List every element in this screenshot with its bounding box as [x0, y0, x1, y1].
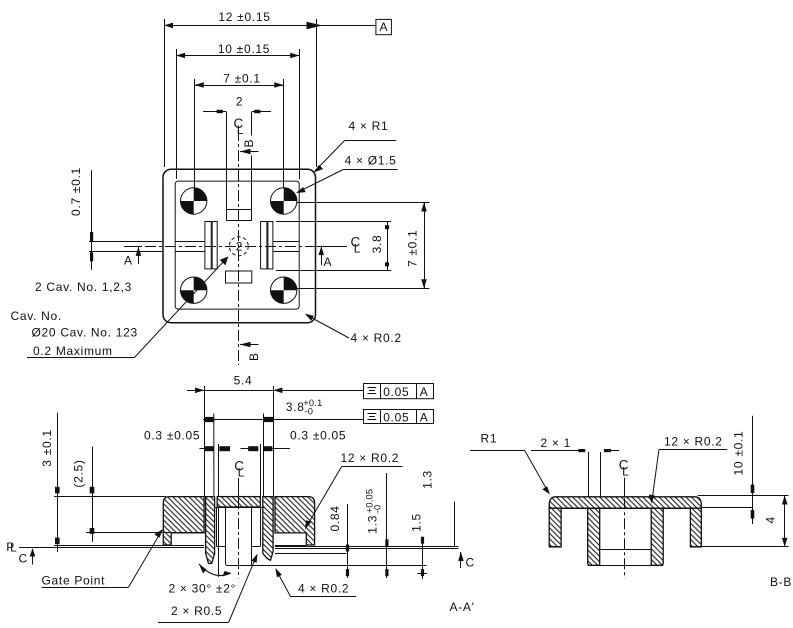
svg-text:A: A: [380, 20, 389, 34]
svg-text:B: B: [242, 139, 256, 148]
svg-text:7 ±0.1: 7 ±0.1: [223, 72, 260, 86]
svg-text:1.5: 1.5: [410, 513, 424, 532]
svg-text:2 × 1: 2 × 1: [541, 436, 572, 450]
svg-text:L: L: [354, 242, 361, 256]
svg-text:2 × 30° ±2°: 2 × 30° ±2°: [169, 582, 237, 596]
svg-text:0.84: 0.84: [328, 505, 342, 531]
svg-text:3.8: 3.8: [286, 400, 305, 414]
svg-text:4 × Ø1.5: 4 × Ø1.5: [345, 154, 397, 168]
svg-text:4 × R0.2: 4 × R0.2: [298, 582, 349, 596]
svg-text:10 ±0.15: 10 ±0.15: [218, 42, 270, 56]
svg-text:4 × R0.2: 4 × R0.2: [351, 331, 402, 345]
svg-text:12 × R0.2: 12 × R0.2: [341, 451, 400, 465]
svg-text:3 ±0.1: 3 ±0.1: [40, 429, 54, 466]
svg-text:3.8: 3.8: [370, 235, 384, 254]
svg-text:10 ±0.1: 10 ±0.1: [732, 431, 746, 476]
svg-text:0.3 ±0.05: 0.3 ±0.05: [290, 429, 346, 443]
svg-text:Ø20 Cav. No. 123: Ø20 Cav. No. 123: [32, 326, 138, 340]
svg-text:4 × R1: 4 × R1: [349, 119, 389, 133]
svg-text:-0: -0: [373, 505, 383, 514]
svg-text:(2.5): (2.5): [71, 459, 85, 487]
svg-text:0.7 ±0.1: 0.7 ±0.1: [69, 167, 83, 216]
svg-text:12 ±0.15: 12 ±0.15: [218, 10, 270, 24]
svg-text:R1: R1: [481, 432, 498, 446]
svg-text:12 × R0.2: 12 × R0.2: [664, 435, 723, 449]
svg-text:C: C: [19, 552, 28, 566]
svg-text:-0: -0: [305, 407, 314, 417]
svg-text:5.4: 5.4: [234, 374, 253, 388]
svg-text:Gate Point: Gate Point: [42, 574, 106, 588]
svg-text:L: L: [622, 465, 629, 479]
svg-text:4: 4: [763, 516, 777, 523]
svg-text:B: B: [247, 352, 261, 361]
svg-text:1.3: 1.3: [366, 515, 380, 534]
svg-text:L: L: [10, 541, 17, 555]
svg-text:A-A': A-A': [450, 600, 475, 614]
svg-text:A: A: [420, 385, 429, 399]
svg-text:L: L: [237, 123, 244, 137]
svg-text:Cav. No.: Cav. No.: [11, 309, 62, 323]
svg-text:0.05: 0.05: [383, 385, 409, 399]
svg-text:A: A: [420, 410, 429, 424]
svg-text:0.2 Maximum: 0.2 Maximum: [33, 344, 113, 358]
svg-text:A: A: [324, 255, 333, 269]
svg-text:C: C: [466, 556, 475, 570]
svg-text:2: 2: [236, 95, 243, 109]
svg-text:2 × R0.5: 2 × R0.5: [171, 604, 222, 618]
svg-text:0.3 ±0.05: 0.3 ±0.05: [144, 429, 200, 443]
svg-text:A: A: [124, 254, 133, 268]
svg-text:7 ±0.1: 7 ±0.1: [405, 230, 419, 267]
svg-text:L: L: [238, 466, 245, 480]
svg-text:B-B: B-B: [770, 575, 792, 589]
svg-text:0.05: 0.05: [383, 410, 409, 424]
svg-text:2 Cav. No. 1,2,3: 2 Cav. No. 1,2,3: [35, 280, 132, 294]
svg-text:1.3: 1.3: [420, 470, 434, 489]
